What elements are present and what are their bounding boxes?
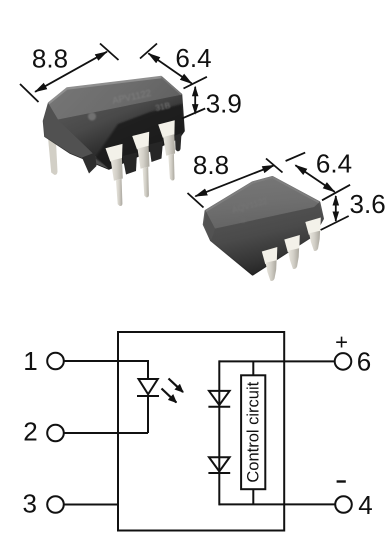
svg-text:2: 2 [23, 417, 37, 447]
svg-text:Control circuit: Control circuit [245, 381, 263, 482]
svg-text:8.8: 8.8 [193, 150, 229, 180]
svg-text:6: 6 [357, 347, 371, 377]
svg-text:3.6: 3.6 [350, 189, 386, 219]
svg-text:8.8: 8.8 [32, 43, 68, 73]
svg-text:+: + [335, 330, 348, 355]
svg-text:1: 1 [23, 346, 37, 376]
svg-text:4: 4 [358, 490, 372, 520]
svg-text:3: 3 [22, 489, 36, 519]
svg-text:6.4: 6.4 [316, 149, 352, 179]
svg-text:3.9: 3.9 [206, 88, 242, 118]
svg-text:6.4: 6.4 [175, 43, 211, 73]
